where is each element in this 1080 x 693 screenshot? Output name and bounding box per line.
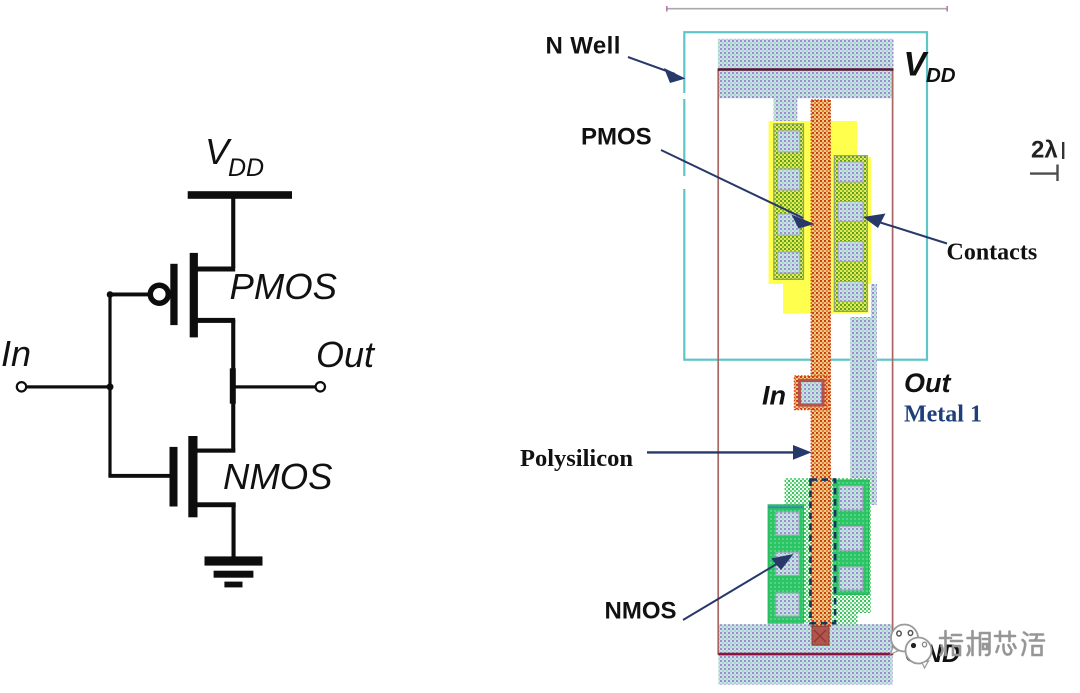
2-lambda dimension label xyxy=(1030,137,1064,182)
Out terminal circle xyxy=(316,382,325,391)
PMOS gate bar xyxy=(170,264,177,325)
svg-text:NMOS: NMOS xyxy=(605,598,677,625)
Contacts arrow xyxy=(863,214,947,244)
metal stub to PMOS source xyxy=(774,98,798,124)
node In junction dot xyxy=(107,383,114,390)
NMOS left column top teal edge xyxy=(768,506,803,508)
svg-text:Out: Out xyxy=(904,368,951,398)
VDD metal rail xyxy=(718,39,894,99)
PMOS right contact column xyxy=(834,156,867,312)
svg-text:Out: Out xyxy=(316,334,376,375)
PMOS right contact 3 xyxy=(838,242,863,262)
NMOS gate bar xyxy=(170,447,178,507)
Polysilicon arrow xyxy=(647,445,812,460)
pdiff yellow main block xyxy=(769,157,871,284)
ground bar 1 xyxy=(205,556,263,565)
GND metal rail xyxy=(718,624,892,684)
PMOS arrow xyxy=(661,150,815,229)
watermark hanzi 2 (tong) xyxy=(968,631,990,655)
PMOS drain vertical wire xyxy=(231,320,235,369)
NMOS drain vertical wire xyxy=(231,403,235,453)
ground bar 2 xyxy=(214,571,254,578)
N Well boundary box xyxy=(684,32,927,360)
NMOS gate wire xyxy=(108,474,169,478)
PMOS channel bar xyxy=(190,253,198,338)
PMOS left contact 4 xyxy=(778,252,800,273)
svg-text:N Well: N Well xyxy=(546,33,621,60)
PMOS left contact 1 xyxy=(778,131,800,152)
NMOS right contact 1 xyxy=(839,486,862,510)
NMOS drain wire xyxy=(197,449,235,453)
Metal1 Out strip top sliver xyxy=(871,284,877,317)
NMOS left contact 3 xyxy=(776,593,799,616)
PMOS drain wire xyxy=(198,318,236,323)
PMOS source wire xyxy=(198,267,236,272)
svg-text:DD: DD xyxy=(228,154,264,182)
NMOS source vertical wire xyxy=(232,505,236,558)
pdiff yellow top band xyxy=(769,121,857,157)
Metal1 Out strip xyxy=(850,317,877,505)
VDD power rail bar xyxy=(188,191,292,199)
NMOS right diffusion column xyxy=(834,480,869,595)
NMOS right contact 2 xyxy=(839,526,862,550)
svg-text:Metal 1: Metal 1 xyxy=(904,402,982,428)
NMOS arrow xyxy=(683,554,794,620)
N Well border gaps xyxy=(683,93,687,99)
NMOS left contact 2 xyxy=(776,552,799,575)
GND dark rail line xyxy=(718,653,892,656)
NMOS channel bar xyxy=(188,436,197,517)
node A junction dot xyxy=(107,291,114,298)
In poly contact pad xyxy=(795,376,827,410)
NMOS left diffusion column xyxy=(768,505,803,623)
ndiff light green gap strip xyxy=(804,613,811,624)
svg-text:Contacts: Contacts xyxy=(947,240,1038,266)
ground bar 3 xyxy=(224,582,242,588)
PMOS left contact 2 xyxy=(778,169,800,190)
ndiff light green back region xyxy=(785,478,871,613)
svg-text:DD: DD xyxy=(926,64,956,87)
PMOS left contact column xyxy=(774,124,804,280)
watermark hanzi 4 (yu) xyxy=(1023,633,1045,656)
Out wire xyxy=(236,385,316,388)
svg-text:PMOS: PMOS xyxy=(230,266,338,307)
output node thick bar xyxy=(230,368,236,403)
PMOS left contact 3 xyxy=(778,214,800,235)
In terminal circle xyxy=(17,382,26,391)
PMOS right contact 1 xyxy=(838,162,863,182)
svg-text:Polysilicon: Polysilicon xyxy=(520,445,633,472)
In contact red ring xyxy=(800,381,824,406)
NMOS source wire xyxy=(198,502,236,507)
substrate contact red square xyxy=(812,626,829,645)
svg-text:In: In xyxy=(1,333,31,374)
PMOS right contact 4 xyxy=(838,282,863,302)
p-select boundary rectangle xyxy=(718,70,892,655)
svg-text:2λ: 2λ xyxy=(1031,137,1058,164)
2-lambda dimension line xyxy=(1030,172,1058,174)
VDD dark rail line xyxy=(718,68,894,71)
pdiff yellow bottom band xyxy=(783,284,869,314)
polysilicon strip xyxy=(811,100,830,626)
ndiff light green bottom region xyxy=(828,594,858,625)
watermark hanzi 3 (xin) xyxy=(995,632,1016,655)
svg-text:PMOS: PMOS xyxy=(581,124,652,151)
NMOS left contact 1 xyxy=(776,512,799,535)
NMOS right contact 3 xyxy=(839,567,862,590)
watermark logo bubbles xyxy=(891,625,932,669)
PMOS right contact 2 xyxy=(838,202,863,222)
PMOS gate bubble xyxy=(150,285,168,303)
NMOS gate dashed outline xyxy=(811,480,836,624)
top frame line xyxy=(666,6,948,12)
left gate vertical wire xyxy=(108,294,111,476)
N Well arrow xyxy=(628,57,686,83)
svg-text:In: In xyxy=(762,381,786,411)
In wire xyxy=(27,385,111,388)
svg-text:NMOS: NMOS xyxy=(223,456,333,497)
watermark hanzi 1 (wu) xyxy=(940,631,962,655)
PMOS gate stub wire xyxy=(108,293,151,297)
wire VDD to PMOS source xyxy=(231,198,235,268)
